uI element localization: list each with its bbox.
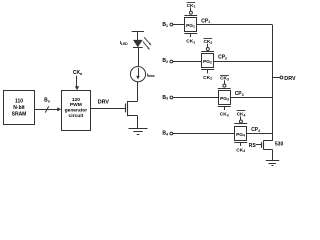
svg-text:PWM: PWM: [70, 102, 82, 108]
svg-text:110: 110: [15, 98, 23, 104]
svg-text:circuit: circuit: [69, 113, 84, 119]
svg-text:generator: generator: [65, 108, 88, 114]
svg-text:DRV: DRV: [98, 99, 110, 105]
svg-text:N-bit: N-bit: [13, 105, 25, 111]
svg-text:RS: RS: [249, 143, 257, 149]
svg-text:SRAM: SRAM: [12, 111, 27, 117]
svg-text:530: 530: [275, 141, 284, 147]
svg-text:120: 120: [72, 97, 80, 103]
svg-text:DRV: DRV: [284, 76, 296, 82]
